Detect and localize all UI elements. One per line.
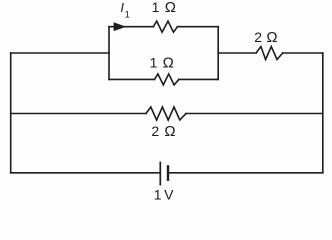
label 1 ohm bottom bbox=[150, 55, 174, 72]
label 2 ohm right bbox=[254, 29, 277, 46]
battery V1 long plate (positive) bbox=[159, 162, 161, 184]
svg-text:1: 1 bbox=[152, 0, 160, 15]
wire W12: middle wire left segment bbox=[11, 113, 146, 115]
resistor 1 ohm top zigzag bbox=[153, 21, 177, 32]
svg-text:Ω: Ω bbox=[163, 55, 174, 72]
wire W15: bottom rail right segment bbox=[168, 172, 323, 174]
wire W7: bottom branch right segment bbox=[179, 78, 218, 80]
resistor 2 ohm middle zigzag bbox=[146, 107, 186, 120]
svg-text:1: 1 bbox=[125, 9, 130, 20]
current arrow I1 head bbox=[114, 22, 127, 31]
svg-text:2: 2 bbox=[151, 123, 159, 139]
wire W3: parallel-box left vertical (node A) bbox=[108, 27, 110, 80]
wire W2: left rail vertical bbox=[10, 53, 12, 173]
wire W10: 2 ohm resistor to right rail bbox=[283, 52, 323, 54]
svg-text:Ω: Ω bbox=[165, 0, 176, 16]
wire W13: middle wire right segment bbox=[186, 113, 323, 115]
wire W8: parallel-box right vertical (node B) bbox=[217, 27, 219, 80]
svg-text:1: 1 bbox=[154, 186, 162, 202]
resistor 1 ohm bottom zigzag bbox=[155, 74, 179, 85]
wire W14: bottom rail left segment bbox=[11, 172, 161, 174]
label 1 ohm top bbox=[152, 0, 176, 16]
wire W9: node B to 2 ohm resistor bbox=[218, 52, 256, 54]
svg-text:Ω: Ω bbox=[266, 29, 277, 46]
svg-text:V: V bbox=[164, 186, 174, 202]
wire W5: top branch right segment bbox=[177, 26, 218, 28]
label I1 current bbox=[120, 0, 129, 20]
battery V1 short plate (negative) bbox=[167, 166, 169, 179]
svg-text:2: 2 bbox=[254, 29, 262, 45]
label 1 V battery bbox=[154, 186, 174, 202]
label 2 ohm middle bbox=[151, 123, 175, 140]
svg-text:1: 1 bbox=[150, 55, 158, 71]
wire W4: top branch left segment bbox=[109, 26, 153, 28]
wire W6: bottom branch left segment bbox=[109, 78, 155, 80]
resistor 2 ohm right zigzag bbox=[256, 47, 283, 60]
svg-text:Ω: Ω bbox=[164, 123, 175, 140]
wire W11: right rail vertical bbox=[322, 53, 324, 173]
wire W1: left feed from left rail to parallel node A bbox=[11, 52, 109, 54]
